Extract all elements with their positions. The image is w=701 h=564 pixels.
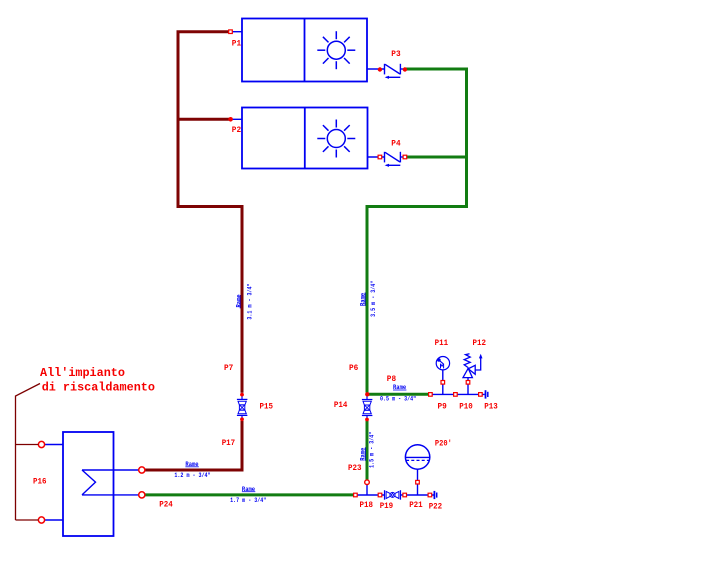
sun symbol collector 2 [317,120,355,158]
svg-text:di riscaldamento: di riscaldamento [42,380,155,394]
wire blue stub collector2 left [232,118,242,120]
svg-text:P19: P19 [380,501,394,511]
svg-text:P7: P7 [224,363,233,373]
svg-text:P12: P12 [473,338,487,348]
svg-text:1.5 m - 3/4": 1.5 m - 3/4" [369,432,376,468]
svg-text:P17: P17 [222,438,236,448]
node P13 (open square) [479,393,483,397]
svg-text:Rame: Rame [235,294,242,307]
wire blue stub valve P4 right [400,156,406,158]
svg-text:P18: P18 [360,500,374,510]
svg-text:P22: P22 [429,502,443,512]
node P1 (open square) [229,30,233,34]
wire blue stub HX left top [45,444,64,446]
wire maroon bracket to heating plant [16,384,41,521]
wire blue stub collector1 right to valve P3 [367,68,385,70]
wire blue manifold P9/P10/P13 [429,393,485,395]
node P15 top (filled) [240,393,244,397]
node P19 right (open square) [403,493,407,497]
node junction P6/P8 (filled) [365,392,369,396]
svg-text:P1: P1 [232,39,241,49]
node tank riser (open square) [416,480,420,484]
svg-text:P23: P23 [348,463,362,473]
sun symbol collector 1 [317,31,355,69]
wire blue stub collector1 left [232,31,242,33]
node P2 (filled) [228,117,233,122]
port HX right top (open circle) [139,467,145,473]
wire return pipe green P3..P6/P8/P23/P24 [144,69,467,495]
svg-text:All'impianto: All'impianto [40,366,125,380]
node gauge riser (open square) [441,381,445,385]
port HX right bottom (open circle) [139,492,145,498]
heat exchanger internal coil [82,470,139,495]
node P18 green end (open square) [354,493,358,497]
wire riser expansion tank P20 [417,469,419,495]
svg-text:1.7 m - 3/4": 1.7 m - 3/4" [230,497,266,504]
node P4 right (open square) [403,155,407,159]
svg-text:P20': P20' [435,439,452,449]
node P15 bottom (filled) [240,417,244,421]
wire supply pipe maroon P1/P2/P7/P17 [144,32,242,470]
svg-text:P13: P13 [484,401,498,411]
check valve P4 [385,152,401,167]
svg-text:P15: P15 [260,401,274,411]
svg-text:P21: P21 [409,500,423,510]
svg-text:P16: P16 [33,476,47,486]
port HX left top (open circle) [38,441,44,447]
svg-text:1.2 m - 3/4": 1.2 m - 3/4" [174,472,210,479]
pipe cap P13 [486,390,488,398]
wire riser relief P12 [467,378,469,395]
pipe cap P22 [434,491,436,499]
collector panel box 2 [242,108,368,169]
expansion tank P20 [405,445,429,469]
svg-text:P24: P24 [159,500,173,510]
node P4 left (open square) [378,155,382,159]
node P14 bottom (filled) [365,418,369,422]
node relief riser (open square) [466,381,470,385]
port HX left bottom (open circle) [38,517,44,523]
svg-text:3.5 m - 3/4": 3.5 m - 3/4" [370,281,377,317]
svg-text:3.1 m - 3/4": 3.1 m - 3/4" [247,283,254,319]
wire riser gauge P11 [442,370,444,395]
node P3 right (filled) [403,67,407,71]
svg-text:P2: P2 [232,125,241,135]
svg-text:P8: P8 [387,374,396,384]
svg-text:P3: P3 [391,49,400,59]
svg-text:P6: P6 [349,363,358,373]
wire blue stub collector2 right to valve P4 [368,156,385,158]
node P23 bottom (open circle) [365,480,370,485]
svg-text:0.5 m - 3/4": 0.5 m - 3/4" [380,396,416,403]
wire blue stub valve P3 right [400,68,406,70]
collector panel box 1 [242,19,367,82]
pressure gauge P11 [436,357,449,370]
svg-text:P11: P11 [435,338,449,348]
valve P19 (on bottom manifold) [385,490,401,500]
node P22 (open square) [428,493,432,497]
node P10 (open square) [454,393,458,397]
safety relief valve P12 [463,354,483,378]
heat exchanger P16 box [63,432,114,536]
node P9 (open square) [429,393,433,397]
valve P14 (balancing valve on green pipe) [362,394,373,419]
wire riser from P23 node to manifold [366,482,368,495]
check valve P3 [385,64,401,79]
svg-text:P9: P9 [438,401,447,411]
svg-text:P14: P14 [334,400,348,410]
svg-text:P10: P10 [459,401,473,411]
node P3 left (filled) [378,67,382,71]
svg-text:P4: P4 [391,139,400,149]
wire blue bottom manifold P18..P22 [354,494,385,496]
wire blue stub HX left bottom [45,519,64,521]
node P19 left (open square) [378,493,382,497]
valve P15 (balancing valve on maroon pipe) [237,394,248,419]
